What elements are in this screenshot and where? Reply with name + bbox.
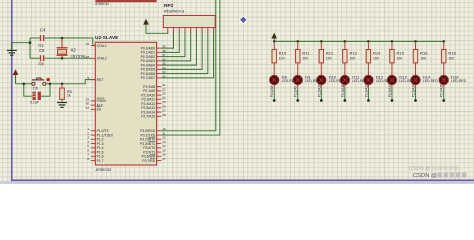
svg-text:C6: C6 (33, 86, 39, 91)
svg-text:R18: R18 (448, 50, 456, 55)
svg-text:CSDN @: CSDN @ (413, 173, 437, 179)
svg-text:R14: R14 (373, 50, 381, 55)
svg-text:XTAL2: XTAL2 (97, 57, 107, 61)
svg-text:P2.5/A13: P2.5/A13 (388, 84, 392, 97)
svg-text:U2-SLAVE: U2-SLAVE (95, 35, 119, 41)
svg-text:R13: R13 (349, 50, 357, 55)
svg-text:100: 100 (448, 57, 454, 61)
svg-text:100: 100 (420, 57, 426, 61)
svg-text:P2.4/A12: P2.4/A12 (364, 84, 368, 97)
svg-text:R10: R10 (279, 50, 287, 55)
svg-text:P2.3/A11: P2.3/A11 (341, 84, 345, 97)
svg-text:100: 100 (326, 57, 332, 61)
svg-text:R16: R16 (420, 50, 428, 55)
svg-text:P2.1/A9: P2.1/A9 (294, 86, 298, 98)
svg-text:RP2: RP2 (164, 3, 174, 9)
svg-text:P1.7: P1.7 (97, 159, 104, 163)
svg-text:R11: R11 (302, 50, 310, 55)
svg-text:100: 100 (302, 57, 308, 61)
svg-text:LED-RED: LED-RED (451, 79, 466, 83)
svg-text:17: 17 (162, 157, 166, 161)
svg-text:C4: C4 (40, 27, 46, 32)
svg-text:100: 100 (397, 57, 403, 61)
svg-text:P2.2/A10: P2.2/A10 (317, 84, 321, 97)
svg-text:AT89C52: AT89C52 (95, 2, 109, 6)
svg-text:28: 28 (162, 113, 166, 117)
svg-text:100: 100 (349, 57, 355, 61)
svg-text:AT89C52: AT89C52 (96, 168, 112, 172)
svg-text:EA: EA (97, 108, 102, 112)
svg-text:19: 19 (86, 42, 90, 46)
svg-text:CRYSTAL: CRYSTAL (71, 55, 87, 59)
svg-text:RESPACK-8: RESPACK-8 (164, 10, 184, 14)
svg-text:R12: R12 (326, 50, 334, 55)
svg-text:22p: 22p (38, 62, 44, 66)
svg-text:C5: C5 (39, 48, 45, 53)
svg-text:31: 31 (86, 106, 90, 110)
svg-text:X2: X2 (71, 48, 77, 53)
svg-text:100: 100 (373, 57, 379, 61)
svg-text:R15: R15 (397, 50, 405, 55)
svg-text:0.1uF: 0.1uF (30, 101, 39, 105)
svg-text:P2.6/A14: P2.6/A14 (412, 84, 416, 97)
svg-text:RST: RST (97, 78, 104, 82)
svg-text:XTAL1: XTAL1 (97, 44, 107, 48)
svg-text:P3.7/RD: P3.7/RD (142, 159, 155, 163)
svg-text:P0.7/AD7: P0.7/AD7 (141, 76, 156, 80)
svg-text:LED-RED: LED-RED (423, 79, 438, 83)
svg-text:P2.0/A8: P2.0/A8 (270, 86, 274, 98)
svg-text:P2.7/A15: P2.7/A15 (141, 115, 155, 119)
svg-text:32: 32 (162, 74, 166, 78)
svg-text:CSDN @: CSDN @ (409, 166, 430, 172)
svg-text:1k: 1k (67, 94, 71, 98)
svg-text:P2.7/A15: P2.7/A15 (440, 84, 444, 97)
svg-text:100: 100 (279, 57, 285, 61)
